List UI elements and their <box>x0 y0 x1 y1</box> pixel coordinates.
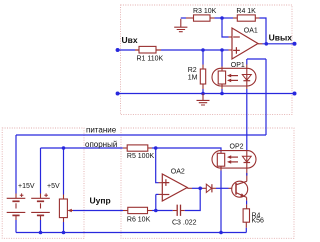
wire bottom rail <box>16 232 246 234</box>
wire OA1 output <box>258 43 263 45</box>
wire R1 to opamp plus <box>161 49 222 51</box>
ground top (R3 input) <box>180 19 182 27</box>
node Uvx terminal <box>116 48 120 52</box>
optocoupler OP1 body <box>212 68 256 86</box>
wire minus input from junction <box>222 18 229 37</box>
OP1 photoresistor <box>221 50 223 67</box>
wire OA2 output <box>187 187 192 189</box>
node R5 OA2 junction <box>154 146 158 150</box>
node Uvyh terminal <box>293 42 297 46</box>
svg-text:R5 100K: R5 100K <box>127 153 155 160</box>
svg-text:питание: питание <box>86 126 117 135</box>
svg-text:опорный: опорный <box>85 140 117 149</box>
node R2 top junction <box>201 48 205 52</box>
svg-text:OA1: OA1 <box>244 28 258 35</box>
svg-text:R3 10K: R3 10K <box>193 8 217 15</box>
svg-text:R4 1K: R4 1K <box>236 8 256 15</box>
resistor R6 <box>123 210 128 212</box>
wire common rail <box>118 93 295 95</box>
resistor R3 <box>194 15 211 21</box>
svg-text:Uвых: Uвых <box>269 32 293 42</box>
node feedback junction <box>220 16 224 20</box>
wire R3 to junction <box>215 17 223 19</box>
wire OA2 minus to R6 C3 node <box>155 194 157 210</box>
svg-text:Uвх: Uвх <box>122 35 138 45</box>
node opornyi B2 pot junction <box>62 146 66 150</box>
node OA2 output junction <box>198 187 202 191</box>
svg-text:K56: K56 <box>252 217 265 224</box>
svg-text:R2: R2 <box>188 67 197 74</box>
wire wiper to R6 <box>73 210 123 212</box>
op-amp OA1 <box>232 28 258 59</box>
node common right terminal <box>293 92 297 96</box>
wire junction to R4 <box>222 17 233 19</box>
wire OP2 cathode to collector <box>246 168 248 181</box>
wire diode to base <box>216 187 229 189</box>
wire to OA2 plus input <box>156 148 159 183</box>
svg-text:C3 .022: C3 .022 <box>172 220 197 227</box>
wire OP1 cathode down to OP2 <box>246 89 248 151</box>
resistor R4 <box>237 15 255 21</box>
battery B2 +5V <box>40 148 42 194</box>
node R6 C3 minus junction <box>154 209 158 213</box>
op-amp OA2 <box>162 174 187 201</box>
wire plus input stub <box>222 49 229 51</box>
OP1 LED <box>246 65 248 81</box>
diode D1 <box>203 187 207 189</box>
transistor Q1 <box>232 181 248 197</box>
node rail OP2 junction <box>219 231 223 235</box>
optocoupler OP2 body <box>212 151 256 169</box>
svg-text:OA2: OA2 <box>171 169 185 176</box>
resistor R1 <box>135 49 161 51</box>
node common left terminal <box>116 92 120 96</box>
dashed box upper section <box>121 5 293 115</box>
node rail pot junction <box>62 231 66 235</box>
svg-text:1M: 1M <box>188 74 198 81</box>
wire Uvx input line <box>118 49 135 51</box>
svg-text:OP1: OP1 <box>231 62 245 69</box>
resistor R4 K56 <box>243 209 249 222</box>
potentiometer wiper arrow <box>68 210 73 212</box>
OP2 LED <box>246 151 248 163</box>
node rail B2 junction <box>39 231 43 235</box>
ground middle (under R2) <box>202 94 204 101</box>
svg-text:R6 10K: R6 10K <box>127 216 151 223</box>
OP2 light arrows <box>230 156 238 158</box>
svg-text:+5V: +5V <box>47 183 60 190</box>
resistor R2 <box>202 50 204 65</box>
node OP1 bottom junction <box>220 92 224 96</box>
battery B1 +15V <box>15 135 17 194</box>
node output junction <box>265 42 269 46</box>
OP1 light arrows <box>230 75 238 77</box>
svg-text:OP2: OP2 <box>230 144 244 151</box>
wire ground to R3 <box>181 17 186 19</box>
svg-text:R1 110K: R1 110K <box>137 55 164 62</box>
svg-text:+15V: +15V <box>18 183 35 190</box>
dashed box power source section <box>2 128 84 238</box>
svg-text:Uупр: Uупр <box>90 196 111 206</box>
wire supply vertical x=266 <box>265 59 267 135</box>
wire reference rail (opornyi) <box>41 147 123 149</box>
node OP1 top junction <box>220 48 224 52</box>
wire emitter down <box>246 197 248 200</box>
capacitor C3 <box>156 210 173 212</box>
OP2 photoresistor <box>220 152 222 154</box>
wire supply riser to OP1 LED anode <box>247 59 266 65</box>
potentiometer <box>63 148 65 195</box>
resistor R5 <box>123 147 127 149</box>
node R2 bottom junction <box>201 92 205 96</box>
dashed box control section <box>121 128 294 238</box>
wire supply rail (pitanie) <box>16 134 266 136</box>
wire R4 right down to output <box>260 18 267 44</box>
